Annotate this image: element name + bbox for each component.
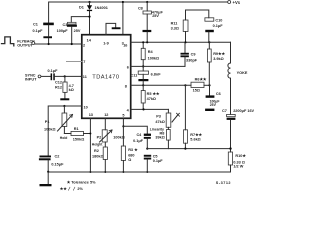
node junction C2/bus <box>47 171 49 173</box>
svg-text:1N4001: 1N4001 <box>95 6 108 10</box>
svg-text:R2: R2 <box>94 149 99 153</box>
svg-text:C7: C7 <box>222 109 227 113</box>
resistor R6 <box>191 77 210 93</box>
svg-text:R12: R12 <box>55 85 62 89</box>
wire pin 16 <box>131 41 231 43</box>
svg-text:100kΩ: 100kΩ <box>44 128 56 132</box>
svg-text:25V: 25V <box>210 103 217 107</box>
node +VS terminal <box>228 1 231 4</box>
node junction C10/R9 <box>208 41 210 43</box>
svg-text:5.6kΩ: 5.6kΩ <box>190 138 200 142</box>
svg-text:Height: Height <box>92 142 103 146</box>
svg-text:OUTPUT: OUTPUT <box>17 43 33 47</box>
svg-text:3.3Ω: 3.3Ω <box>171 26 179 30</box>
potentiometer P1 <box>44 106 73 140</box>
node junction C4/C5 <box>146 148 148 150</box>
node junction pin6 <box>142 65 144 67</box>
svg-text:S-3712: S-3712 <box>216 181 231 185</box>
ground R12 <box>60 98 69 100</box>
svg-text:8: 8 <box>125 84 127 88</box>
op-amp U1 TDA1470 outline <box>82 35 131 119</box>
capacitor C9 <box>181 42 198 66</box>
resistor R8 <box>155 127 170 148</box>
svg-text:0.1μF: 0.1μF <box>48 69 59 73</box>
resistor R1 <box>64 127 90 141</box>
svg-text:15Ω: 15Ω <box>193 89 200 93</box>
wire C12 to pin 11 <box>55 75 82 77</box>
svg-text:680: 680 <box>128 153 134 157</box>
svg-text:16: 16 <box>123 44 127 48</box>
resistor R2 <box>92 147 107 172</box>
capacitor C6 <box>205 85 221 111</box>
pulse waveform symbol <box>2 37 14 46</box>
diode D1 1N4001 <box>79 1 108 35</box>
node junction P1 top <box>63 105 65 107</box>
svg-text:13: 13 <box>89 113 93 117</box>
capacitor C11 <box>131 71 162 85</box>
svg-text:P1: P1 <box>45 120 50 124</box>
svg-text:Ω: Ω <box>128 158 131 162</box>
resistor R9 <box>207 42 225 85</box>
resistor R11 <box>171 10 209 42</box>
wire pin3 to rail <box>122 2 124 35</box>
wire bottom bus <box>48 171 230 173</box>
svg-text:2: 2 <box>83 44 85 48</box>
svg-text:C2: C2 <box>55 155 60 159</box>
potentiometer P3 <box>150 109 180 131</box>
svg-text:12: 12 <box>104 113 108 117</box>
wire pin 4 <box>131 108 169 110</box>
capacitor C7 <box>222 109 255 152</box>
svg-text:1/2 W: 1/2 W <box>233 165 243 169</box>
node junction R5/pin4 <box>142 108 144 110</box>
svg-text:C6: C6 <box>216 92 221 96</box>
svg-text:10: 10 <box>84 106 88 110</box>
svg-text:150kΩ: 150kΩ <box>73 138 85 142</box>
node junction R11 bottom <box>184 41 186 43</box>
svg-text:C11: C11 <box>131 73 138 77</box>
svg-text:C1: C1 <box>33 22 38 26</box>
svg-text:kΩ: kΩ <box>69 88 74 92</box>
svg-text:25V: 25V <box>152 14 159 18</box>
capacitor C10 <box>205 18 223 43</box>
svg-text:0.1μF: 0.1μF <box>33 29 44 33</box>
svg-text:47kΩ: 47kΩ <box>155 120 164 124</box>
capacitor C2 <box>39 155 64 172</box>
svg-text:0.1μF: 0.1μF <box>213 24 224 28</box>
node flyback terminal <box>32 42 35 45</box>
resistor R4 <box>141 41 159 71</box>
svg-text:D1: D1 <box>79 6 84 10</box>
svg-text:R10★: R10★ <box>235 153 246 158</box>
svg-text:R3 ★: R3 ★ <box>128 147 138 152</box>
svg-text:39kΩ: 39kΩ <box>155 136 164 140</box>
svg-text:R11: R11 <box>171 22 178 26</box>
ground bottom <box>47 172 49 184</box>
svg-text:1-9: 1-9 <box>103 41 109 45</box>
svg-text:R1: R1 <box>74 127 79 131</box>
svg-text:R5 ★★: R5 ★★ <box>147 91 160 96</box>
wire sync to C12 <box>41 75 51 77</box>
svg-text:INPUT: INPUT <box>25 77 37 81</box>
svg-text:7: 7 <box>83 60 85 64</box>
resistor R10 <box>228 152 246 172</box>
resistor R5 <box>141 85 160 109</box>
svg-text:100kΩ: 100kΩ <box>148 57 160 61</box>
node junction C8 bottom <box>146 41 148 43</box>
wire pin 7 stub <box>67 61 82 63</box>
inductor yoke <box>228 42 248 114</box>
node junction R7 top <box>184 84 186 86</box>
capacitor C8 <box>138 1 164 42</box>
node junction pin5 <box>122 125 124 127</box>
wire pin 6 <box>131 65 185 67</box>
node junction R7 bottom <box>184 148 186 150</box>
svg-text:25V: 25V <box>74 29 81 33</box>
svg-text:6.8nF: 6.8nF <box>151 72 162 76</box>
wire top supply rail <box>49 2 228 23</box>
svg-text:0.1μF: 0.1μF <box>153 159 164 163</box>
svg-text:Hold: Hold <box>60 136 68 140</box>
node junction C3/flyback <box>71 43 73 45</box>
node junction R12/sync <box>64 75 66 77</box>
svg-text:R7★★: R7★★ <box>190 132 202 137</box>
wire pin 5 <box>122 119 124 147</box>
svg-text:3.9kΩ: 3.9kΩ <box>213 57 223 61</box>
svg-text:100μF: 100μF <box>57 29 69 33</box>
svg-text:C8: C8 <box>138 6 143 10</box>
svg-text:TDA1470: TDA1470 <box>92 74 119 80</box>
wire pin 13 to bus <box>89 119 91 173</box>
resistor R3 <box>121 146 138 172</box>
potentiometer P2 <box>92 130 125 147</box>
svg-text:★★ 〳 〳 2%: ★★ 〳 〳 2% <box>60 186 84 191</box>
capacitor C5 <box>144 154 164 172</box>
svg-text:C5: C5 <box>153 154 158 158</box>
ground pins 1-9 <box>106 23 121 34</box>
svg-text:R9★★: R9★★ <box>213 51 225 56</box>
svg-text:180kΩ: 180kΩ <box>92 155 104 159</box>
svg-text:2200μF 16V: 2200μF 16V <box>233 109 254 113</box>
svg-text:C12: C12 <box>55 80 62 84</box>
svg-text:0.1μF: 0.1μF <box>133 139 144 143</box>
svg-text:5: 5 <box>122 113 124 117</box>
wire pin5 junction to C4 <box>123 126 147 133</box>
wire pin 8 <box>131 84 191 86</box>
node junction C7/feedback <box>229 147 231 149</box>
node sync terminal <box>38 75 41 78</box>
capacitor C1 <box>33 22 54 44</box>
capacitor C3 <box>57 22 81 44</box>
wire pin 10 <box>48 106 82 156</box>
svg-text:6: 6 <box>127 65 129 69</box>
resistor R7 <box>184 85 203 148</box>
svg-text:+VS: +VS <box>233 0 241 5</box>
svg-text:C9: C9 <box>191 53 196 57</box>
svg-text:P2: P2 <box>97 136 102 140</box>
svg-text:0.15μF: 0.15μF <box>51 163 64 167</box>
wire pin 12 <box>104 119 106 130</box>
node junction R9/C6 <box>208 84 210 86</box>
svg-text:330pF: 330pF <box>186 58 198 62</box>
node junction C1/flyback <box>48 43 50 45</box>
wire C3 top to D1 cathode <box>71 17 89 23</box>
capacitor C4 <box>133 133 151 149</box>
wire feedback y148 <box>147 148 230 150</box>
svg-text:★ Tolerance 5%: ★ Tolerance 5% <box>67 179 96 184</box>
svg-text:C3: C3 <box>63 23 68 27</box>
wire flyback to pin 2 <box>35 43 82 45</box>
svg-text:47kΩ: 47kΩ <box>147 97 156 101</box>
capacitor C12 <box>48 69 62 84</box>
node junction C11/R5 <box>142 84 144 86</box>
resistor R12 <box>55 76 74 98</box>
svg-text:11: 11 <box>83 75 87 79</box>
svg-text:YOKE: YOKE <box>237 71 248 75</box>
svg-text:P3: P3 <box>156 114 161 118</box>
svg-text:C10: C10 <box>215 18 222 22</box>
svg-text:R6★★: R6★★ <box>195 77 207 82</box>
